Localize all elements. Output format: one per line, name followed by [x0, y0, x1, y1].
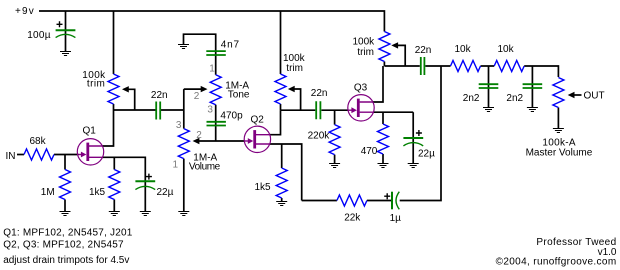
- svg-text:22µ: 22µ: [157, 187, 174, 198]
- svg-text:Q1: MPF102, 2N5457, J201: Q1: MPF102, 2N5457, J201: [3, 227, 133, 238]
- svg-text:10k: 10k: [498, 44, 515, 55]
- resistor 1k5 Q2: [276, 168, 287, 198]
- svg-text:22n: 22n: [415, 45, 432, 56]
- wire Tone wiper to Volume pin3 column: [183, 89, 185, 129]
- wire trim1 top stem: [113, 11, 115, 74]
- svg-text:1k5: 1k5: [255, 182, 272, 193]
- wire master volume bottom: [557, 108, 559, 129]
- svg-text:2n2: 2n2: [463, 93, 480, 104]
- wire OUT arrow: [574, 94, 582, 96]
- ground 470: [378, 164, 389, 168]
- wire 220k column: [334, 110, 336, 163]
- wire Q2 drain: [270, 110, 281, 135]
- svg-text:22n: 22n: [311, 88, 328, 99]
- capacitor 100u: [56, 29, 76, 31]
- potentiometer 1M-A Volume: [178, 129, 189, 159]
- node C Q3 drain line: [384, 62, 450, 67]
- wire trim3 wiper: [398, 45, 406, 66]
- capacitor 4n7: [206, 51, 226, 55]
- svg-text:Q2, Q3: MPF102, 2N5457: Q2, Q3: MPF102, 2N5457: [3, 239, 124, 250]
- resistor 68k: [24, 149, 54, 160]
- svg-text:OUT: OUT: [584, 91, 605, 102]
- transistor Q2: [244, 126, 270, 152]
- svg-text:adjust drain trimpots for 4.5v: adjust drain trimpots for 4.5v: [3, 255, 129, 266]
- svg-text:22k: 22k: [344, 212, 361, 223]
- svg-text:Q3: Q3: [354, 83, 368, 94]
- capacitor 22n first: [156, 102, 160, 120]
- plus sign 22u Q1: [146, 174, 152, 180]
- wire trim2 column: [280, 11, 282, 110]
- svg-text:2: 2: [196, 130, 202, 141]
- capacitor 22u Q3: [403, 137, 423, 139]
- svg-text:22n: 22n: [151, 90, 168, 101]
- trimpot 100k trim1: [108, 74, 119, 104]
- wire Q3 drain: [372, 66, 383, 102]
- wire 1M column: [64, 155, 66, 212]
- ground 22u Q1: [140, 212, 151, 216]
- resistor 10k first: [451, 61, 481, 72]
- wire trim1 bottom to Q1 drain: [102, 104, 114, 146]
- capacitor 1u feedback: [391, 192, 393, 210]
- svg-text:Volume: Volume: [189, 161, 221, 172]
- wire 1k5 column: [113, 157, 115, 211]
- resistor 22k: [337, 195, 367, 206]
- svg-text:100µ: 100µ: [27, 30, 51, 41]
- node A Q1 drain line: [114, 109, 184, 111]
- potentiometer 1M-A Tone: [210, 75, 221, 105]
- wire 100u column: [65, 11, 67, 52]
- svg-text:3: 3: [176, 120, 182, 131]
- wire trim1 wiper: [128, 89, 134, 110]
- wire Q2 source line: [270, 144, 302, 201]
- ground Volume: [178, 212, 189, 216]
- wire Volume wiper to Q2 gate: [199, 140, 245, 142]
- ground 1k5 Q2: [276, 202, 287, 206]
- wire 68k to Q1 gate: [54, 154, 79, 156]
- resistor 470: [378, 124, 389, 154]
- svg-text:Master Volume: Master Volume: [526, 147, 593, 158]
- wire Tone pin3 to 470p to wiper line: [215, 105, 217, 141]
- ground tone 4n7: [178, 45, 189, 49]
- ground 220k: [329, 164, 340, 168]
- ground 2n2 second: [527, 108, 538, 112]
- svg-text:©2004, runoffgroove.com: ©2004, runoffgroove.com: [496, 257, 617, 268]
- ground 2n2 first: [483, 108, 494, 112]
- svg-text:470: 470: [361, 146, 378, 157]
- wire Q3 source line: [373, 111, 413, 113]
- plus sign 1u: [384, 193, 390, 199]
- node +9V rail: [39, 11, 384, 32]
- svg-text:2n2: 2n2: [506, 93, 523, 104]
- transistor Q3: [348, 95, 374, 121]
- svg-text:Q1: Q1: [83, 125, 97, 136]
- plus sign 22u Q3: [416, 130, 422, 136]
- wire feedback bottom line: [302, 66, 441, 201]
- svg-text:Tone: Tone: [228, 89, 250, 100]
- svg-text:IN: IN: [6, 151, 16, 162]
- resistor 10k second: [494, 61, 524, 72]
- svg-text:trim: trim: [286, 63, 303, 74]
- ground 1k5: [109, 212, 120, 216]
- svg-text:Q2: Q2: [251, 114, 265, 125]
- wire trim2 wiper: [294, 89, 300, 110]
- trimpot 100k trim3: [379, 32, 390, 62]
- svg-text:trim: trim: [357, 47, 374, 58]
- svg-text:1M: 1M: [41, 187, 55, 198]
- transistor Q1: [77, 139, 103, 165]
- capacitor 22u Q1: [135, 180, 155, 182]
- svg-text:3: 3: [207, 104, 213, 115]
- svg-text:100k: 100k: [353, 36, 376, 47]
- ground master volume: [553, 129, 564, 133]
- svg-text:+9v: +9v: [15, 6, 35, 17]
- resistor 220k: [329, 125, 340, 155]
- capacitor 470p: [207, 122, 226, 126]
- resistor 1k5: [109, 170, 120, 200]
- node B Q2 drain line: [281, 109, 349, 111]
- svg-text:470p: 470p: [220, 111, 243, 122]
- wire Tone wiper pin2: [184, 88, 201, 90]
- wire 1k5b column: [281, 144, 283, 202]
- ground 22u Q3: [408, 164, 419, 168]
- capacitor 2n2 first: [479, 84, 499, 88]
- svg-text:1: 1: [173, 160, 179, 171]
- wire 10k chain: [481, 66, 559, 77]
- wire 22u2 column: [412, 112, 414, 163]
- svg-text:trim: trim: [87, 78, 105, 89]
- plus sign 100u: [57, 21, 63, 27]
- svg-text:1k5: 1k5: [89, 187, 106, 198]
- svg-text:220k: 220k: [308, 131, 331, 142]
- wire ground to 4n7 to Tone pin1: [184, 34, 216, 74]
- svg-text:4n7: 4n7: [221, 40, 240, 51]
- svg-text:10k: 10k: [455, 44, 472, 55]
- svg-text:68k: 68k: [30, 136, 47, 147]
- wire Q1 source line: [102, 157, 145, 211]
- wire IN to 68k: [17, 154, 24, 156]
- capacitor 2n2 second: [523, 84, 543, 88]
- ground 100u: [60, 52, 71, 56]
- wire Volume pin1 to ground: [183, 159, 185, 212]
- potentiometer 100k-A Master Volume: [553, 78, 564, 108]
- svg-text:1µ: 1µ: [390, 213, 402, 224]
- capacitor 22n second: [316, 101, 320, 119]
- wire 470 column: [382, 112, 384, 163]
- ground 1M: [60, 212, 71, 216]
- trimpot 100k trim2: [275, 74, 286, 104]
- svg-text:22µ: 22µ: [418, 148, 435, 159]
- svg-text:1: 1: [209, 64, 215, 75]
- svg-text:2: 2: [194, 91, 200, 102]
- resistor 1M: [60, 170, 71, 200]
- capacitor 22n third: [421, 57, 425, 75]
- wire 2n2 stems: [489, 66, 533, 107]
